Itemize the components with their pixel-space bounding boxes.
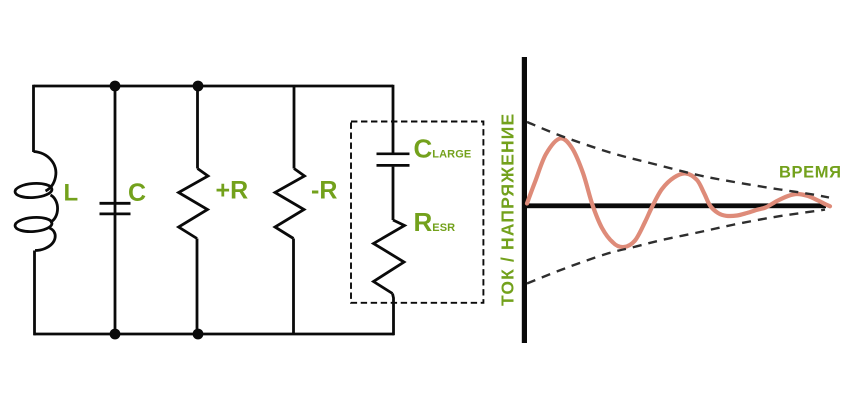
wire +R branch top <box>196 86 199 169</box>
svg-text:L: L <box>64 180 79 207</box>
node top C <box>110 81 121 92</box>
axis horizontal <box>522 203 826 208</box>
wire +R branch bottom <box>196 239 199 335</box>
svg-text:+R: +R <box>216 177 249 205</box>
envelope bottom dashed <box>527 210 825 284</box>
wire -R branch bottom <box>292 239 295 335</box>
capacitor CLARGE <box>377 154 410 166</box>
damped oscillation curve <box>527 138 830 247</box>
dashed box ESR model <box>351 122 483 303</box>
axis vertical <box>522 57 527 343</box>
resistor +R <box>179 169 208 239</box>
node bottom C <box>110 329 121 340</box>
wire C branch <box>114 86 117 334</box>
node top +R <box>193 81 204 92</box>
wire left branch top <box>32 85 35 152</box>
inductor L <box>15 152 58 251</box>
svg-text:CLARGE: CLARGE <box>414 134 472 164</box>
resistor -R <box>275 169 305 239</box>
resistor RESR <box>374 220 405 294</box>
svg-text:RESR: RESR <box>414 207 456 237</box>
wire left branch bottom <box>33 251 36 336</box>
svg-text:C: C <box>128 179 146 207</box>
svg-text:-R: -R <box>311 177 337 205</box>
wire right branch bottom <box>393 294 394 336</box>
capacitor C <box>100 203 131 214</box>
wire right branch top <box>392 85 395 153</box>
wire top bus <box>34 85 394 88</box>
node bottom +R <box>193 329 204 340</box>
wire -R branch top <box>293 86 296 169</box>
svg-text:ВРЕМЯ: ВРЕМЯ <box>779 163 842 181</box>
svg-text:ТОК / НАПРЯЖЕНИЕ: ТОК / НАПРЯЖЕНИЕ <box>498 113 518 306</box>
wire bottom bus <box>34 333 395 336</box>
envelope top dashed <box>527 122 829 198</box>
wire CLARGE to RESR <box>392 167 395 220</box>
